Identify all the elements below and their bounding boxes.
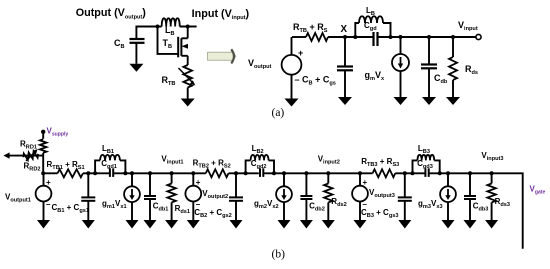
svg-text:(a): (a) <box>272 107 285 119</box>
ground below Cdb <box>422 97 436 105</box>
current source gm1Vx1 <box>124 171 140 220</box>
wire supply <box>42 132 44 139</box>
resistor RRD2 with arrow <box>3 149 43 161</box>
capacitor CB3+Cgs3 element <box>398 171 412 220</box>
current source gm3Vx3 <box>440 171 456 220</box>
wire rail a3 <box>378 36 477 38</box>
resistor Rds1 <box>167 171 175 220</box>
ground below Voutput2 <box>187 220 200 229</box>
ground below RTB <box>181 99 195 107</box>
ground below Cdb2 <box>300 220 313 229</box>
wire output node <box>136 27 157 40</box>
ground below Rds2 <box>322 220 335 229</box>
transistor TB <box>178 37 188 65</box>
svg-text:X: X <box>341 24 348 35</box>
ground below CB <box>129 64 143 72</box>
wire rail b3 <box>113 172 206 174</box>
junction supply rail <box>41 171 45 175</box>
resistor RRD1 <box>40 139 47 153</box>
resistor RTB3+RS3 <box>373 169 396 177</box>
ground below CB2+Cgs2 <box>230 220 243 229</box>
node Vsupply terminal <box>41 130 45 134</box>
ground below CB1+Cgs1 <box>82 220 95 229</box>
node X <box>343 35 347 39</box>
capacitor Cgd2 <box>260 168 263 177</box>
svg-text:–: – <box>46 200 51 209</box>
wire rail a1 <box>292 36 306 38</box>
source Voutput2 <box>185 171 201 220</box>
source Voutput1 <box>36 173 52 220</box>
resistor RTB1+RS1 <box>58 169 83 177</box>
ground below Voutput1 <box>37 220 50 229</box>
svg-text:(b): (b) <box>272 249 286 261</box>
ground below Cdb1 <box>144 220 157 229</box>
ground below CB3+Cgs3 <box>398 220 411 229</box>
capacitor Cdb2 <box>300 171 312 220</box>
resistor Rds3 <box>487 171 495 220</box>
capacitor Cgd3 <box>425 168 428 177</box>
junction box corners <box>156 25 160 29</box>
ground below Rds <box>446 97 460 105</box>
resistor Rds2 <box>324 171 332 220</box>
inductor LB1 bridge <box>95 155 125 173</box>
source Voutput (a) <box>282 37 302 99</box>
block arrow implies <box>208 49 236 63</box>
wire rail b2 <box>83 172 110 174</box>
capacitor CB1+Cgs1 element <box>81 171 95 220</box>
wire rail b5 <box>264 172 373 174</box>
current source gm2Vx2 <box>276 171 292 220</box>
ground below gm2Vx2 <box>278 220 291 229</box>
resistor RTB+RS <box>306 33 328 41</box>
resistor RTB2+RS2 <box>206 169 229 177</box>
wire rail b4 <box>229 172 259 174</box>
capacitor Cdb3 <box>464 171 476 220</box>
ground below Cdb3 <box>464 220 477 229</box>
ground below Rds1 <box>165 220 178 229</box>
capacitor Cdb1 <box>144 171 156 220</box>
ground below Voutput3 <box>354 220 367 229</box>
current source gmVx <box>392 35 409 97</box>
wire rail b1 <box>43 172 57 174</box>
ground below gmVx <box>394 97 408 105</box>
wire rail b6 <box>395 172 424 174</box>
wire rail a2 <box>328 36 374 38</box>
inductor LB bridge (a) <box>355 16 390 37</box>
wire feedback box <box>158 27 197 54</box>
ground below source (a) <box>285 99 299 107</box>
capacitor CB+Cgs <box>337 37 353 97</box>
ground below gm3Vx3 <box>442 220 455 229</box>
capacitor CB2+Cgs2 element <box>229 171 243 220</box>
capacitor Cgd1 <box>110 168 113 177</box>
svg-text:+: + <box>196 178 201 187</box>
ground below gm1Vx1 <box>126 220 139 229</box>
ground below CB+Cgs <box>338 97 352 105</box>
svg-text:+: + <box>363 178 368 187</box>
inductor LB (feedback) <box>162 18 180 26</box>
wire RTB to ground <box>187 88 189 99</box>
wire supply to rail <box>42 153 44 174</box>
capacitor CB <box>130 39 145 64</box>
capacitor Cdb <box>421 35 437 97</box>
resistor RTB (variable) <box>179 65 196 88</box>
inductor LB2 bridge <box>246 155 274 173</box>
svg-text:+: + <box>46 178 51 187</box>
wire rail b7 and Vgate drop <box>430 173 523 248</box>
source Voutput3 <box>352 171 368 220</box>
resistor Rds <box>449 35 457 97</box>
terminal Vinput (a) <box>476 34 481 39</box>
svg-text:+: + <box>298 48 303 58</box>
capacitor Cgd (a) <box>374 32 378 46</box>
ground below Rds3 <box>485 220 498 229</box>
inductor LB3 bridge <box>413 155 440 173</box>
